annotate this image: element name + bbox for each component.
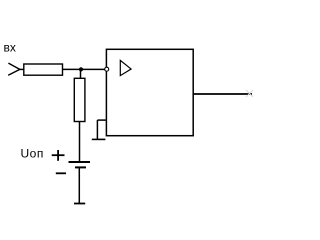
input terminal X1 (chevron) (8, 63, 20, 75)
output wire (193, 93, 252, 95)
ground pin: vertical lead (96, 120, 98, 139)
faint handle mark at output end (246, 90, 253, 97)
inverting input bubble (105, 67, 109, 71)
ground bar (92, 138, 106, 140)
ground pin: horizontal lead from box (97, 119, 106, 121)
wire: terminal to R1 (19, 68, 25, 70)
resistor R1 (horizontal) (24, 64, 63, 75)
node A (junction dot) (79, 67, 83, 71)
wire: junction down to R2 (80, 69, 82, 79)
battery Uоп : negative plate (75, 166, 86, 168)
comparator U1 (body) (106, 49, 193, 135)
wire: R1 to bubble (63, 68, 105, 70)
wire: R2 down to battery (79, 122, 81, 162)
label − (56, 172, 66, 174)
resistor R2 (vertical) (74, 78, 85, 121)
battery Uоп : positive plate (69, 161, 91, 163)
wire: battery to bottom terminal (78, 167, 80, 203)
label + (52, 150, 65, 161)
ground (bottom terminal bar) (74, 203, 85, 205)
svg-text:вх: вх (4, 41, 16, 55)
svg-text:Uоп: Uоп (21, 146, 44, 160)
amplifier symbol (triangle) (120, 60, 131, 75)
